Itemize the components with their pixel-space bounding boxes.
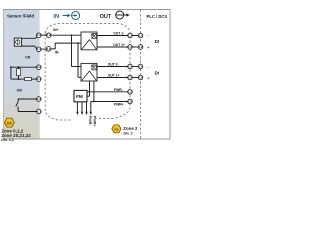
svg-text:Div. 1,2: Div. 1,2 bbox=[1, 138, 14, 142]
svg-text:OUT 2+: OUT 2+ bbox=[108, 74, 120, 78]
svg-text:2.2: 2.2 bbox=[128, 99, 132, 103]
svg-text:4.1: 4.1 bbox=[37, 77, 41, 81]
svg-text:-: - bbox=[147, 65, 148, 69]
svg-text:-: - bbox=[147, 34, 148, 38]
svg-text:PLC / DCS: PLC / DCS bbox=[147, 14, 168, 19]
svg-text:+: + bbox=[147, 76, 149, 80]
svg-text:εx: εx bbox=[7, 120, 12, 125]
svg-text:Div. 2: Div. 2 bbox=[124, 131, 133, 135]
svg-text:PWR-: PWR- bbox=[114, 88, 123, 92]
svg-text:OUT 2-: OUT 2- bbox=[108, 63, 119, 67]
svg-text:4.2: 4.2 bbox=[37, 97, 41, 101]
svg-text:IN-: IN- bbox=[55, 51, 59, 55]
svg-text:4.1: 4.1 bbox=[37, 109, 41, 113]
svg-text:1.1: 1.1 bbox=[128, 33, 132, 37]
svg-text:IN: IN bbox=[53, 14, 59, 20]
svg-text:OR: OR bbox=[25, 56, 31, 60]
svg-text:PWR+: PWR+ bbox=[92, 116, 96, 127]
svg-text:2.1: 2.1 bbox=[128, 64, 132, 68]
svg-text:4.2: 4.2 bbox=[47, 33, 51, 37]
svg-text:OUT 1+: OUT 1+ bbox=[113, 43, 125, 47]
svg-text:Sensor /Field: Sensor /Field bbox=[7, 14, 34, 19]
svg-text:PWR-: PWR- bbox=[88, 116, 92, 127]
svg-text:1.1: 1.1 bbox=[138, 33, 142, 37]
svg-text:OUT: OUT bbox=[100, 14, 112, 20]
svg-text:1.2: 1.2 bbox=[138, 45, 142, 49]
svg-text:1.2: 1.2 bbox=[128, 90, 132, 94]
svg-text:+: + bbox=[147, 46, 149, 50]
svg-text:DI: DI bbox=[155, 39, 159, 44]
svg-text:2.2: 2.2 bbox=[128, 75, 132, 79]
svg-text:OR: OR bbox=[17, 89, 23, 93]
svg-text:4.2: 4.2 bbox=[37, 65, 41, 69]
svg-text:OUT 1-: OUT 1- bbox=[113, 32, 124, 36]
svg-text:FM: FM bbox=[76, 94, 83, 99]
svg-text:PWR+: PWR+ bbox=[114, 103, 124, 107]
svg-text:IN+: IN+ bbox=[53, 28, 58, 32]
svg-text:2.2: 2.2 bbox=[138, 75, 142, 79]
svg-text:1.2: 1.2 bbox=[128, 45, 132, 49]
svg-text:4.2: 4.2 bbox=[37, 33, 41, 37]
svg-text:4.1: 4.1 bbox=[37, 47, 41, 51]
svg-text:DI: DI bbox=[155, 71, 159, 76]
svg-text:2.1: 2.1 bbox=[138, 64, 142, 68]
svg-text:4.1: 4.1 bbox=[46, 47, 50, 51]
